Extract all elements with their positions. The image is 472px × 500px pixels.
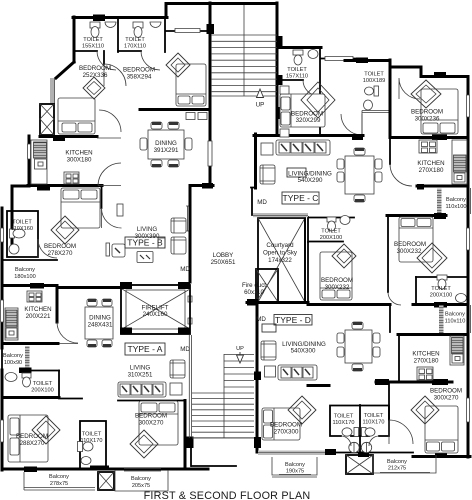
MD sill type C hatched: [253, 213, 308, 217]
wardrobe diamond bedroom270X300D: [288, 396, 316, 424]
basin toilet157: [308, 50, 318, 59]
stair bottom base wall: [192, 465, 236, 467]
svg-text:KITCHEN: KITCHEN: [65, 150, 92, 157]
courtyard X: [258, 218, 305, 302]
basin toilet110A: [81, 457, 91, 465]
pillows bedroom252: [62, 123, 76, 132]
firelift corner blocks: [120, 282, 132, 289]
courtyard box: [258, 218, 305, 302]
basin toilet200C: [456, 294, 467, 303]
wall toilet157 bottom: [277, 79, 303, 81]
WC toilet110x160: [10, 229, 15, 238]
svg-text:110X160: 110X160: [11, 226, 33, 232]
wardrobe diamond bedroom358: [166, 53, 190, 77]
side tables bedroom358: [186, 113, 195, 120]
stair top left flight treads: [211, 35, 277, 96]
wall toilet100X189 bottom: [362, 111, 389, 136]
svg-text:BEDROOM: BEDROOM: [123, 67, 155, 74]
chair dining D top: [352, 322, 363, 329]
WC toilet100X189: [374, 86, 379, 96]
window kitchen B left: [28, 144, 31, 159]
chairs dining D right: [373, 333, 380, 343]
wall kitchen B left: [28, 136, 31, 186]
chair dining B left: [140, 138, 147, 150]
wall kitchenC left: [389, 137, 391, 164]
svg-text:TOILET: TOILET: [364, 413, 384, 419]
lobby right wall upper: [254, 134, 257, 188]
svg-text:300X270: 300X270: [434, 395, 459, 402]
basin toilet200A: [5, 373, 17, 382]
kitchenC fridge hatched: [454, 155, 467, 172]
svg-text:155X110: 155X110: [82, 44, 104, 50]
svg-text:358X294: 358X294: [127, 74, 152, 81]
svg-text:MD: MD: [180, 346, 190, 353]
firelift inner box: [126, 290, 185, 329]
svg-text:UP: UP: [236, 346, 244, 352]
wardrobe diamond bedroom288: [32, 416, 60, 444]
bed bedroom232D: [320, 252, 352, 300]
wall outer left x2: [1, 208, 4, 348]
wall kitchenD left: [398, 334, 400, 382]
sofa A cushions: [120, 384, 130, 395]
basin toilet110x160: [9, 244, 19, 254]
svg-text:TYPE - B: TYPE - B: [127, 238, 163, 248]
lintel blocks on x277: [276, 36, 283, 46]
svg-text:BEDROOM: BEDROOM: [430, 388, 462, 395]
toilet 110X160 box: [7, 211, 38, 257]
svg-text:TYPE - D: TYPE - D: [275, 315, 311, 325]
door arc toilet155: [97, 51, 116, 70]
bed bedroom300D: [425, 406, 458, 453]
svg-text:540X290: 540X290: [298, 177, 323, 184]
stair bottom divider: [223, 354, 225, 438]
wall kitchenC top: [390, 136, 468, 139]
lintel block 232C bottom: [434, 302, 447, 308]
svg-text:TOILET: TOILET: [82, 432, 102, 438]
duct shaft X: [40, 104, 54, 135]
side table D sofa: [265, 366, 276, 377]
lintel block bedroom232C top: [434, 213, 446, 219]
wall bedroom232C left: [387, 216, 389, 293]
wall diagonal left: [56, 62, 74, 78]
chairs dining A top: [87, 299, 97, 306]
pillows bedroom236: [423, 123, 438, 133]
wall kitchen B bottom: [28, 184, 102, 187]
wardrobe diamond bedroom236: [411, 80, 441, 108]
chair dining C top: [354, 148, 365, 155]
wall balcony100x90 right hatched: [25, 346, 30, 369]
svg-text:Balcony: Balcony: [3, 353, 23, 359]
wall bedroom358 bottom: [140, 108, 210, 111]
svg-text:TOILET: TOILET: [12, 220, 32, 226]
wall bedroomD bottom: [413, 455, 470, 458]
lintel block kitchen B bottom: [37, 185, 50, 191]
svg-text:MD: MD: [256, 316, 266, 323]
svg-text:KITCHEN: KITCHEN: [417, 160, 444, 167]
wall kitchen A bottom: [2, 342, 58, 345]
pillows bedroom320: [281, 97, 290, 110]
armchair D: [261, 341, 276, 360]
sofa B armchair1: [171, 218, 186, 233]
wall bedroom320 bottom: [254, 134, 363, 137]
window y31: [175, 29, 200, 33]
toilets D divider: [359, 405, 361, 452]
wall y398 bedroomA top: [59, 398, 82, 400]
basin toilet100X189: [364, 100, 373, 110]
svg-text:300X180: 300X180: [67, 157, 92, 164]
wall courtyard/D right x305: [304, 215, 306, 302]
svg-text:Balcony: Balcony: [445, 312, 465, 318]
toilet 200X100 A top wall: [31, 370, 59, 372]
chairs dining C left: [337, 159, 344, 169]
wall bedroomA right x184: [184, 401, 187, 467]
balcony190x75 box: [272, 457, 317, 477]
dining table B: [148, 130, 184, 159]
svg-text:190x75: 190x75: [286, 469, 304, 475]
svg-text:BEDROOM: BEDROOM: [135, 413, 167, 420]
svg-text:320X299: 320X299: [296, 117, 321, 124]
kitchenB stove hatched: [34, 142, 47, 158]
chairs dining B bottom: [151, 160, 162, 167]
side table A sofa: [170, 383, 182, 395]
lintel block toilet155 top: [93, 15, 105, 22]
svg-text:TYPE - C: TYPE - C: [283, 193, 319, 203]
sofa C row base: [276, 140, 330, 155]
wall bedroom300X236 top step: [390, 67, 468, 77]
svg-text:TOILET: TOILET: [33, 381, 53, 387]
wall toilet100X189 top: [345, 59, 390, 62]
pillows bedroom300A: [141, 403, 157, 412]
label typeD box: [274, 315, 312, 326]
wall x390 right column: [389, 60, 392, 137]
door line kitchen B bottom: [98, 163, 121, 186]
wall y58 window strip: [321, 58, 356, 60]
wall kitchenD top: [398, 333, 468, 336]
coffee table B: [137, 252, 153, 263]
wall kitchenD bottom: [376, 381, 452, 384]
window outer right bedroom236: [467, 95, 470, 117]
kitchenC sink: [454, 173, 465, 182]
wall top of unit B toilets: [73, 16, 167, 19]
svg-text:300X270: 300X270: [139, 420, 164, 427]
svg-text:TOILET: TOILET: [321, 229, 341, 235]
svg-text:100X189: 100X189: [363, 78, 385, 84]
svg-text:TOILET: TOILET: [364, 72, 384, 78]
wall bedroom278 bottom / balcony top: [3, 259, 57, 261]
svg-text:BEDROOM: BEDROOM: [270, 422, 302, 429]
svg-text:100x90: 100x90: [4, 360, 22, 366]
bed bedroom270X300D: [262, 408, 300, 440]
svg-text:205x75: 205x75: [132, 483, 150, 489]
WC toiletD2: [362, 428, 367, 437]
wall stair right x277 top: [276, 3, 279, 135]
door arc kitchen A: [57, 322, 78, 344]
wall dining/lobby y185: [190, 184, 213, 187]
svg-text:KITCHEN: KITCHEN: [412, 351, 439, 358]
svg-text:DINING: DINING: [155, 140, 177, 147]
svg-text:DINING: DINING: [89, 315, 111, 322]
svg-text:BEDROOM: BEDROOM: [411, 109, 443, 116]
balcony110x110 left rail hatched: [439, 305, 444, 333]
lintel block courtyard bottom: [247, 299, 258, 306]
svg-text:Balcony: Balcony: [387, 459, 407, 465]
console strip on x190 wall: [186, 206, 189, 231]
fire duct X: [256, 269, 278, 302]
wall kitchenC bottom: [417, 185, 468, 188]
balcony110x110 right rail: [470, 305, 472, 333]
bed bedroom358: [176, 64, 206, 106]
svg-text:60x110: 60x110: [244, 289, 264, 296]
svg-text:BEDROOM: BEDROOM: [321, 277, 353, 284]
lintel block y185: [202, 183, 213, 189]
pillows bedroom232C: [401, 219, 415, 227]
sofa D row base: [278, 365, 317, 380]
armchair B left: [112, 244, 125, 257]
svg-text:200X100: 200X100: [31, 387, 53, 393]
svg-text:110X170: 110X170: [81, 438, 103, 444]
svg-text:BEDROOM: BEDROOM: [16, 433, 48, 440]
shaft X-box bottom center: [346, 455, 373, 474]
wall typeD bottom hatched: [258, 451, 327, 456]
stair top divider: [243, 5, 245, 96]
dining table C: [345, 156, 374, 194]
tv table C: [287, 168, 306, 177]
toilet200X100C left wall: [415, 277, 417, 304]
svg-text:240X160: 240X160: [143, 311, 168, 318]
shaft X-box diagonals center: [346, 455, 373, 474]
sofa B armchair2: [171, 237, 186, 254]
wall x190 stair left lower: [189, 335, 191, 438]
stair bottom left flight treads: [192, 355, 254, 438]
chair dining B right: [185, 138, 192, 150]
svg-text:MD: MD: [257, 199, 267, 206]
wall left x12: [11, 186, 14, 250]
wardrobe diamond bedroom232C: [417, 243, 447, 273]
chairs dining B top: [151, 122, 162, 129]
duct shaft left: [40, 104, 54, 135]
wall x209 lobby left: [209, 3, 212, 186]
svg-text:110x110: 110x110: [445, 319, 466, 325]
door arc bedroom236: [399, 78, 420, 99]
door arc toilet170: [141, 51, 160, 70]
svg-text:Fire duct: Fire duct: [242, 282, 266, 289]
wall kitchen B top: [40, 135, 97, 138]
bed bedroom278: [61, 188, 100, 228]
kitchenD fridge hatched: [452, 338, 464, 354]
chairs dining D left: [337, 333, 344, 343]
bed bedroom252: [58, 98, 95, 134]
wall bedroom232C bottom: [413, 303, 468, 306]
pillows bedroom300D: [427, 442, 440, 451]
lift door jambs: [188, 296, 192, 324]
svg-text:FIRST & SECOND FLOOR PLAN: FIRST & SECOND FLOOR PLAN: [144, 490, 311, 500]
wall balcony180 bottom: [2, 284, 57, 287]
wall x190 stair left upper: [189, 186, 192, 282]
kitchenB counter: [31, 140, 47, 184]
shaft X-box diagonals: [98, 472, 114, 490]
wall outer left x2 lower: [1, 370, 4, 470]
svg-text:310X251: 310X251: [128, 372, 153, 379]
sofa D cushions: [281, 367, 291, 378]
door arc D bedroom: [389, 420, 413, 444]
toilet200X100C top wall: [416, 276, 468, 278]
firelift outer box: [121, 285, 190, 334]
balcony110x100 right rail: [470, 188, 472, 214]
WC toilet200D: [327, 217, 336, 222]
svg-text:KITCHEN: KITCHEN: [24, 306, 51, 313]
dining table D: [345, 330, 372, 363]
svg-text:Balcony: Balcony: [131, 476, 151, 482]
svg-text:200X100: 200X100: [430, 293, 452, 299]
balcony110x100 left rail hatched: [437, 189, 442, 215]
wall courtyard bottom: [247, 301, 308, 304]
svg-text:180x100: 180x100: [14, 274, 35, 280]
wall step up to stair top: [165, 4, 168, 18]
toilet 200X100 A bottom wall: [2, 396, 59, 399]
svg-text:Balcony: Balcony: [49, 474, 69, 480]
shaft X-box bottom left: [98, 472, 114, 490]
svg-text:LIVING: LIVING: [137, 226, 157, 233]
WC toilet200A: [22, 373, 31, 378]
TV unit B: [117, 204, 123, 216]
toilet 110X170 A box: [80, 421, 106, 469]
svg-text:170X110: 170X110: [124, 44, 146, 50]
side table C: [261, 143, 273, 155]
wall window strip left x52: [51, 78, 55, 104]
fire duct box: [256, 269, 278, 302]
window in wall x209: [208, 141, 212, 166]
balcony 205x75 box: [115, 469, 168, 492]
kitchenA counter: [5, 308, 18, 340]
wardrobe diamond bedroom300A: [130, 430, 158, 458]
svg-text:278X270: 278X270: [48, 250, 73, 257]
armchair A: [170, 360, 185, 378]
svg-text:391X291: 391X291: [154, 147, 179, 154]
wall toilet2 right x165: [164, 19, 166, 52]
svg-text:TYPE - A: TYPE - A: [128, 344, 163, 354]
svg-text:110x100: 110x100: [445, 204, 466, 210]
door arc kitchenC: [390, 164, 412, 186]
wall toilet157 right: [319, 48, 321, 136]
lintel block bedroomD bottom: [435, 452, 447, 458]
bed bedroom320: [280, 94, 325, 127]
kitchenB hob 4 burner: [64, 172, 79, 184]
svg-text:300X232: 300X232: [325, 284, 350, 291]
wall balcony100x90 left: [1, 346, 3, 370]
wall x389 D living/bedroom divider: [388, 382, 390, 420]
wardrobe diamond bedroom232D: [332, 244, 356, 268]
wall toilets bottom: [74, 50, 141, 52]
wardrobe diamond bedroom252: [83, 77, 105, 99]
wall x390 D bedroom left: [389, 305, 391, 332]
kitchenD counter right: [450, 336, 464, 365]
svg-text:252X336: 252X336: [83, 72, 108, 79]
svg-text:288X270: 288X270: [20, 440, 45, 447]
svg-text:BEDROOM: BEDROOM: [79, 65, 111, 72]
wall kitchen A right: [56, 286, 59, 322]
svg-text:278x75: 278x75: [50, 481, 68, 487]
chair dining D bottom: [352, 364, 363, 371]
wall top of stair block: [166, 2, 277, 5]
lobby wall jog: [251, 188, 256, 216]
wall bottom unit A: [2, 468, 208, 471]
label typeA box: [125, 343, 165, 355]
wall typeD left x256: [256, 305, 259, 452]
sofa C cushions: [279, 142, 290, 153]
WC toiletD1: [354, 428, 359, 437]
svg-text:TOILET: TOILET: [125, 37, 145, 43]
toilet 200X100 A right wall: [58, 371, 60, 398]
lintel block balcony180: [30, 283, 44, 289]
svg-text:TOILET: TOILET: [83, 37, 103, 43]
svg-text:300X236: 300X236: [415, 116, 440, 123]
toilet200X100 D box: [308, 217, 354, 242]
WC toilet170: [133, 22, 143, 28]
wall bedroom252 bottom thin: [97, 110, 121, 138]
svg-text:MD: MD: [180, 266, 190, 273]
bed bedroom300A: [139, 401, 178, 445]
wardrobe diamond bedroom320: [301, 82, 335, 118]
kitchenC counter right: [452, 140, 467, 184]
WC toilet110A: [78, 442, 83, 452]
svg-text:212x75: 212x75: [388, 466, 406, 472]
armchair C: [260, 165, 275, 184]
svg-text:Courtyard: Courtyard: [266, 242, 294, 249]
stair UP arrow top: [257, 89, 264, 98]
svg-text:200X221: 200X221: [26, 313, 51, 320]
wardrobe diamond bedroom300D: [411, 396, 439, 424]
chairs dining C right: [375, 159, 382, 169]
svg-text:BEDROOM: BEDROOM: [44, 243, 76, 250]
lintel blocks kitchenD bottom: [375, 379, 389, 385]
svg-text:270X300: 270X300: [274, 429, 299, 436]
stair bottom D UP arrow: [239, 352, 241, 356]
wall y401 bedroom300X270A top: [118, 400, 184, 402]
svg-text:Balcony: Balcony: [446, 197, 466, 203]
side table bedroom320: [280, 86, 289, 94]
WC toilet200C: [437, 275, 447, 280]
svg-text:270X180: 270X180: [414, 358, 439, 365]
wall bedroom278 right x101: [101, 187, 103, 208]
bed bedroom288: [8, 415, 48, 462]
bed bedroom232C: [399, 217, 433, 262]
wall bedroom270X300D top: [308, 384, 329, 387]
wall y305 D top: [308, 303, 390, 306]
chair dining C bottom: [354, 195, 365, 202]
basin toilet170: [150, 22, 161, 28]
wall bedroom232C top: [387, 214, 446, 217]
door arc bedroom232C: [388, 292, 401, 305]
svg-text:Balcony: Balcony: [15, 267, 35, 273]
kitchenB sink: [35, 159, 47, 169]
svg-text:200X100: 200X100: [320, 235, 342, 241]
wall left of bedroom 252X336: [73, 17, 76, 62]
balcony212x75 box: [373, 455, 436, 473]
svg-text:UP: UP: [256, 102, 265, 109]
svg-text:174x322: 174x322: [268, 257, 292, 264]
svg-text:Open to Sky: Open to Sky: [263, 250, 298, 257]
wall outer right x468: [467, 77, 470, 458]
kitchenD hob: [417, 367, 433, 380]
lintel block kitchen B top: [53, 136, 65, 142]
basin toilet155: [105, 22, 116, 28]
twin basins toiletsD: [349, 442, 359, 452]
svg-text:540X300: 540X300: [291, 348, 316, 355]
wall y452 toilets strip: [327, 452, 413, 454]
wall toilet157 top: [277, 46, 321, 49]
svg-text:248X431: 248X431: [88, 322, 113, 329]
WC toilet157: [293, 50, 303, 55]
